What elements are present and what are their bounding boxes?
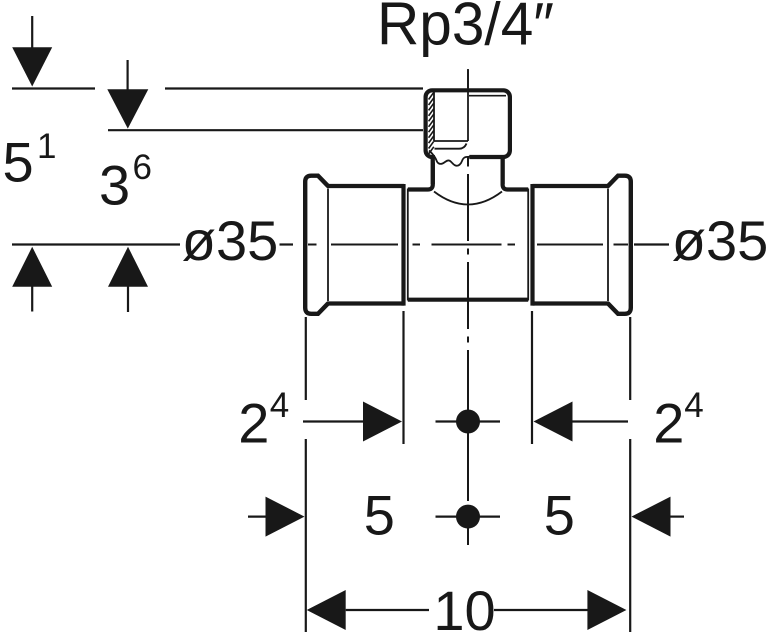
arrow left row1 [534, 402, 573, 442]
svg-text:4: 4 [684, 386, 703, 425]
centerline horizontal [12, 243, 180, 245]
arrow right row1 [363, 402, 402, 442]
right press bead [608, 176, 631, 314]
left bead junction line [327, 189, 329, 302]
extension line left mouth [402, 311, 404, 444]
branch neck right [501, 155, 505, 184]
body edge behind right mouth [527, 189, 529, 301]
leader right row1 [573, 420, 629, 422]
right bead junction line [607, 189, 609, 302]
arrow left row3 [307, 590, 346, 630]
svg-text:ø35: ø35 [672, 209, 769, 272]
arrow up 3 [127, 287, 129, 313]
cap top inner line right half [469, 95, 506, 97]
right socket mouth line [530, 184, 534, 306]
ref line top (branch top) [12, 87, 423, 89]
white patch over cap bottom edge left [431, 150, 469, 163]
svg-text:2: 2 [238, 392, 269, 455]
saddle curve [434, 192, 502, 205]
arrow right row3 [587, 590, 626, 630]
extension line left end [305, 317, 307, 632]
arrow up 5 [31, 286, 33, 312]
branch thread cap outline [426, 90, 510, 157]
arrow left row2 [632, 497, 671, 537]
svg-text:5: 5 [3, 131, 34, 194]
arrow down 3 [126, 60, 128, 92]
body edge behind left mouth [407, 189, 409, 301]
svg-text:Rp3/4″: Rp3/4″ [377, 0, 554, 57]
ref line thread depth [108, 129, 423, 131]
dim line row3 right [494, 609, 588, 611]
branch centerline stub above cap [467, 69, 469, 88]
svg-text:10: 10 [433, 579, 495, 632]
arrow down 5 [31, 16, 33, 50]
svg-text:6: 6 [133, 148, 152, 187]
center tick row2 [436, 515, 501, 517]
thread cone line [435, 144, 467, 149]
left socket outline [327, 186, 404, 304]
right socket outline [533, 186, 610, 304]
arrow right row2 [266, 497, 305, 537]
dim line row3 left [346, 609, 429, 611]
thread hatch [429, 92, 434, 154]
svg-text:1: 1 [37, 127, 56, 166]
svg-text:2: 2 [653, 392, 684, 455]
extension line right end [629, 317, 631, 632]
svg-text:5: 5 [544, 484, 575, 547]
leader left row2 [248, 515, 266, 517]
branch neck left [431, 155, 435, 184]
center tick row1 [436, 420, 501, 422]
body outline [408, 156, 433, 190]
left socket mouth line [401, 184, 405, 306]
break-out wavy line [429, 151, 476, 166]
left press bead [305, 176, 328, 314]
leader right row2 [670, 515, 684, 517]
svg-text:5: 5 [364, 484, 395, 547]
svg-text:3: 3 [99, 154, 130, 217]
thread bore left line [433, 92, 435, 141]
branch centerline below cap [467, 156, 469, 545]
section edge at centerline [467, 70, 469, 141]
svg-text:ø35: ø35 [182, 209, 278, 272]
svg-text:4: 4 [270, 386, 289, 425]
leader left row1 [303, 420, 364, 422]
center dot row1 [456, 410, 480, 434]
thread bottom line [434, 140, 468, 142]
extension line right mouth [531, 311, 533, 444]
foot of digit 1 [440, 626, 462, 630]
center dot row2 [456, 505, 480, 529]
